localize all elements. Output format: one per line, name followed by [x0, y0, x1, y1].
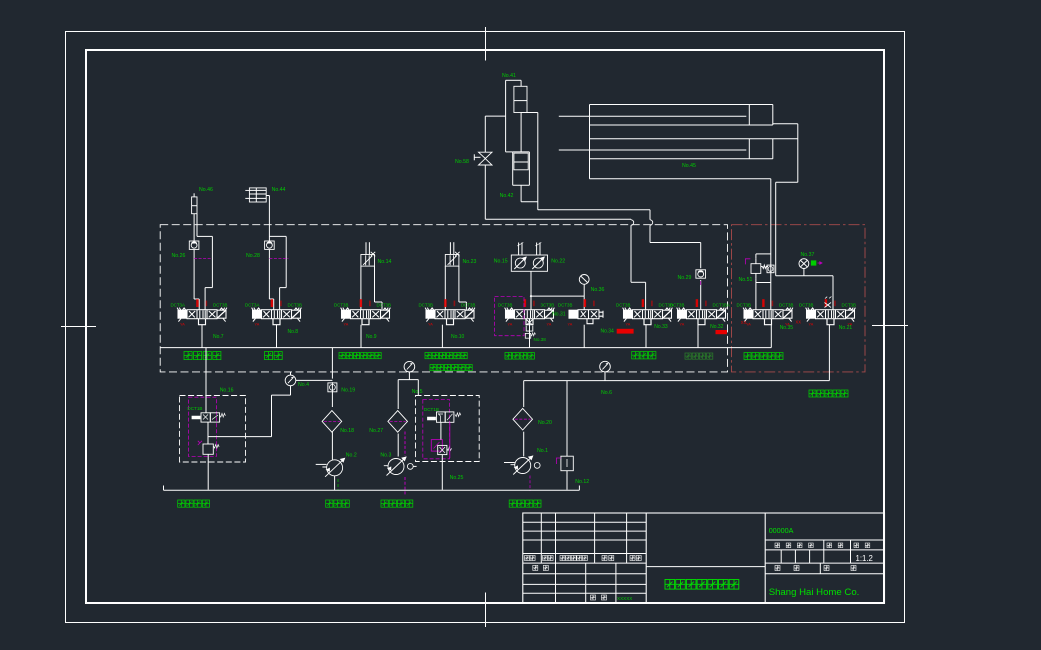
main-cylinder fast-feed red dash-dot box: [732, 225, 866, 372]
svg-text:No.25: No.25: [450, 475, 464, 481]
revision table rows: [523, 522, 646, 593]
inner border frame: [86, 50, 884, 603]
svg-text:YA: YA: [848, 323, 853, 327]
svg-text:No.31: No.31: [552, 312, 566, 318]
revision header labels (white CJK): [525, 556, 536, 561]
right header labels (white CJK): [775, 543, 813, 548]
svg-text:YA: YA: [785, 323, 790, 327]
svg-text:XX: XX: [796, 320, 802, 325]
svg-text:DCT1B: DCT1B: [187, 406, 202, 411]
svg-text:No.45: No.45: [682, 163, 696, 169]
unloader magenta drain line: [449, 422, 451, 458]
title block outline: [523, 513, 885, 603]
flow control valve No.23: [445, 252, 459, 266]
pressure gauge No.5: [404, 361, 415, 372]
svg-text:No.3: No.3: [380, 453, 391, 459]
svg-text:YA: YA: [508, 323, 513, 327]
magenta drain below stabilizer pump: [404, 432, 406, 496]
valve V5 solenoid tag red: [524, 299, 526, 307]
svg-text:No.29: No.29: [678, 275, 692, 281]
pilot relief valve: [198, 441, 219, 455]
horizontal actuator No.44: [245, 188, 266, 202]
wires pilot box: [206, 348, 291, 490]
shutoff valve No.58: [474, 152, 492, 165]
pressure gauge No.37: [799, 259, 809, 276]
svg-text:No.33: No.33: [654, 324, 668, 330]
unloader throttle check: [438, 445, 452, 454]
svg-text:No.23: No.23: [463, 259, 477, 265]
svg-text:No.28: No.28: [246, 253, 260, 259]
flow control valve No.14: [361, 252, 375, 266]
directional valve V1 No.7: [177, 308, 227, 325]
directional valve V4 No.10: [425, 308, 475, 325]
svg-text:DCT3B: DCT3B: [419, 303, 433, 308]
wire actuator No.44 to valve V2: [266, 196, 286, 310]
svg-text:No.16: No.16: [220, 388, 234, 394]
label below red box main-cyl fast (5 chars): [809, 390, 848, 397]
outer border frame: [66, 32, 905, 623]
magenta bracket relief pilot: [745, 259, 750, 265]
magenta tap line No.26: [194, 258, 211, 260]
station label 6 (3 chars): [632, 352, 656, 359]
gauge isolator green block: [811, 260, 816, 265]
revision table columns lower: [556, 563, 616, 603]
svg-text:YA: YA: [746, 323, 751, 327]
directional valve V5 No.31: [505, 308, 555, 325]
wires No.23 to valve: [445, 266, 466, 310]
valve V2 solenoid tag red: [271, 299, 273, 307]
stabilizer pump No.3: [384, 457, 406, 476]
directional valve V7 No.33: [623, 308, 673, 325]
svg-text:No.5: No.5: [412, 389, 423, 395]
relief valve No.13: [561, 456, 573, 471]
intensifier cylinder No.41 upper barrel: [506, 80, 521, 152]
centering tick right: [872, 325, 908, 327]
svg-text:DCT3B: DCT3B: [799, 303, 813, 308]
suction filter No.20: [513, 408, 533, 430]
directional valve V3 No.9: [341, 308, 391, 325]
svg-text:DCT3B: DCT3B: [461, 303, 475, 308]
V10 return wire down to pump header: [828, 325, 830, 381]
magenta drain pipe pump: [529, 476, 531, 492]
tank return header line: [160, 347, 771, 349]
svg-text:No.14: No.14: [378, 259, 392, 265]
station label 4 line2 (6 chars): [430, 365, 472, 371]
return wires from valves to tank header: [202, 325, 771, 348]
svg-text:No.4: No.4: [298, 382, 309, 388]
V5 lower chain throttle + pilot valve: [525, 319, 535, 348]
main ram cylinder No.45 body: [590, 105, 798, 183]
unloader solenoid valve: [428, 412, 461, 422]
pump header line: [524, 372, 830, 490]
wire regulator block to V5 and V6: [530, 271, 584, 309]
svg-text:No.41: No.41: [502, 73, 516, 79]
bottom label main pump (3 chars): [326, 500, 350, 507]
wires No.14 to valve: [361, 266, 382, 310]
wires stabilizer pump column: [398, 372, 418, 457]
svg-text:No.19: No.19: [341, 388, 355, 394]
green centerline below main pump: [337, 479, 339, 490]
drawing title (7 CJK chars): [665, 580, 739, 590]
svg-text:No.34: No.34: [601, 329, 615, 335]
check valve No.29: [696, 270, 706, 278]
svg-text:No.44: No.44: [272, 187, 286, 193]
magenta arrow at gauge: [818, 262, 823, 264]
pressure gauge No.4: [285, 375, 296, 386]
svg-text:No.36: No.36: [591, 287, 605, 293]
svg-text:No.38: No.38: [534, 337, 547, 342]
svg-text:No.8: No.8: [288, 329, 299, 335]
wire gauge to main pump column: [296, 379, 332, 381]
svg-text:No.27: No.27: [369, 428, 383, 434]
svg-text:No.37: No.37: [801, 252, 815, 258]
svg-text:DCT3B: DCT3B: [213, 303, 227, 308]
machine-zone dashed enclosure box: [160, 225, 727, 372]
svg-text:No.18: No.18: [340, 428, 354, 434]
svg-text:No.12: No.12: [575, 479, 589, 485]
svg-text:YA: YA: [809, 323, 814, 327]
bottom label stabilizer pump (4 chars): [381, 500, 413, 507]
valve V9 solenoid tag red: [762, 299, 764, 307]
svg-text:DCT3BA: DCT3BA: [713, 303, 730, 308]
pilot control magenta box: [188, 397, 216, 456]
pressure gauge No.6: [600, 361, 611, 372]
svg-text:YA: YA: [547, 323, 552, 327]
svg-text:YA: YA: [680, 323, 685, 327]
wires unloader box: [418, 380, 442, 490]
directional valve V9 No.35: [743, 308, 793, 325]
wire: relief loop to valve V9 left port: [755, 283, 757, 310]
svg-text:XXXXX: XXXXX: [617, 596, 632, 601]
svg-text:No.26: No.26: [172, 253, 186, 259]
valve V10 solenoid tag red: [825, 299, 827, 307]
svg-text:No.9: No.9: [366, 334, 377, 340]
intensifier piston lower: [514, 153, 528, 170]
pilot solenoid valve: [192, 413, 225, 422]
svg-text:DCT3B: DCT3B: [334, 303, 348, 308]
svg-text:YA: YA: [180, 323, 185, 327]
station label 3 (6 chars): [339, 353, 381, 359]
svg-text:3CT3B: 3CT3B: [541, 303, 555, 308]
magenta tap line No.28: [269, 258, 288, 260]
svg-text:DCT3B: DCT3B: [670, 303, 684, 308]
directional valve V8 No.32: [677, 308, 727, 325]
pilot control unit dashed box: [180, 396, 246, 463]
svg-text:YA: YA: [428, 323, 433, 327]
wire actuator No.46 to valve V1: [194, 214, 212, 310]
valve V3 solenoid tag red: [360, 299, 362, 307]
directional valve V2 No.8: [252, 308, 302, 325]
centering tick top: [485, 27, 487, 61]
bottom label pipe pump (4 chars): [509, 500, 541, 507]
station label 5 (4 chars): [505, 353, 534, 360]
designer row label (white CJK): [533, 565, 549, 570]
bottom label pilot-control (4 chars): [178, 500, 210, 507]
svg-text:DCT1B: DCT1B: [424, 407, 439, 412]
svg-text:00000A: 00000A: [769, 526, 794, 535]
pilot relief valve No.51: [751, 259, 768, 279]
svg-text:DCT3A: DCT3A: [245, 303, 259, 308]
intensifier piston upper: [514, 86, 527, 152]
title block main dividers: [646, 513, 765, 603]
relief valve loop wires in red box: [756, 254, 771, 283]
svg-text:DCT3B: DCT3B: [288, 303, 302, 308]
pilot X mark above V10: [825, 297, 832, 308]
directional valve V10 No.21: [806, 308, 856, 325]
svg-text:No.15: No.15: [494, 259, 508, 265]
svg-text:No.51: No.51: [739, 277, 753, 283]
wire: shutoff line to valve V7: [485, 116, 645, 310]
middle separator: [646, 566, 765, 568]
unloader pilot magenta valve: [431, 440, 442, 452]
valve V1 solenoid tag red: [196, 299, 198, 307]
svg-text:No.20: No.20: [538, 420, 552, 426]
pipe pump No.1: [511, 456, 533, 475]
unloader solenoid dashed box: [416, 396, 480, 462]
wire: main ram rear line down to valve V9: [770, 179, 772, 310]
red bar marker 1: [617, 329, 634, 334]
svg-text:No.6: No.6: [601, 390, 612, 396]
svg-text:YA: YA: [626, 323, 631, 327]
svg-text:DCT3B: DCT3B: [616, 303, 630, 308]
svg-text:No.58: No.58: [455, 159, 469, 165]
wire: intensifier right line to valve V8: [521, 113, 701, 310]
svg-text:No.7: No.7: [213, 334, 224, 340]
centering tick left: [61, 326, 96, 328]
svg-text:No.2: No.2: [346, 453, 357, 459]
valve V7 solenoid tag red: [642, 299, 644, 307]
svg-text:No.1: No.1: [537, 448, 548, 454]
wire main pump column: [332, 348, 334, 491]
twin flow regulator block No.15/No.22: [511, 243, 547, 272]
sheet count labels (white CJK): [775, 566, 799, 571]
svg-text:XX: XX: [741, 320, 747, 325]
station label 7 (4 chars dark): [685, 353, 713, 359]
suction filter No.27: [388, 411, 408, 433]
svg-text:DCT3A: DCT3A: [171, 303, 185, 308]
main ram rod lower: [559, 149, 747, 151]
tank line: [164, 486, 580, 491]
svg-text:DCT3B: DCT3B: [737, 303, 751, 308]
check valve No.28: [265, 241, 275, 249]
unloader magenta box: [423, 400, 450, 459]
svg-text:DCT3B: DCT3B: [842, 303, 856, 308]
magenta dashed box around V5: [495, 297, 524, 336]
red bar marker 2: [716, 330, 727, 334]
pump No.3 drain circle: [407, 464, 413, 470]
svg-text:No.46: No.46: [199, 187, 213, 193]
station label 2 (2 chars): [265, 352, 283, 360]
centering tick bottom: [485, 593, 487, 628]
check valve in red box: [767, 265, 774, 273]
svg-text:DCT3B: DCT3B: [779, 303, 793, 308]
station label 8 main-cyl fast (5 chars): [744, 353, 783, 360]
intensifier lower barrel: [513, 152, 530, 185]
valve V8 solenoid tag red: [696, 299, 698, 307]
right panel columns: [781, 540, 850, 574]
main ram piston upper: [749, 105, 773, 126]
svg-text:YA: YA: [344, 323, 349, 327]
svg-text:DCT3B: DCT3B: [377, 303, 391, 308]
station label 4 line1 (6 chars): [425, 353, 467, 359]
station label 1 (4 chars): [184, 352, 221, 360]
svg-text:1:1.2: 1:1.2: [856, 554, 873, 563]
main ram piston lower: [749, 139, 773, 159]
svg-text:No.32: No.32: [710, 324, 724, 330]
clamp actuator No.46: [192, 193, 197, 213]
svg-text:No.10: No.10: [451, 334, 465, 340]
check valve No.19: [328, 383, 337, 392]
svg-text:DCT3B: DCT3B: [498, 303, 512, 308]
revision table columns upper: [541, 513, 626, 563]
svg-text:DCT3B: DCT3B: [558, 303, 572, 308]
valve V6 solenoid tag red: [584, 299, 586, 307]
wire pump3 to solenoid box: [413, 465, 416, 467]
svg-text:YA: YA: [568, 323, 573, 327]
svg-text:YA: YA: [255, 323, 260, 327]
directional valve V6 No.34: [569, 310, 603, 324]
check valve No.26: [189, 241, 199, 249]
svg-text:No.42: No.42: [500, 193, 514, 199]
suction filter No.18: [322, 411, 342, 433]
valve V4 solenoid tag red: [444, 299, 446, 307]
date label (white CJK): [591, 595, 607, 600]
main pump drive stub: [316, 463, 327, 465]
wire: main ram front line to valve V10: [776, 182, 833, 309]
pressure gauge No.36: [579, 275, 589, 297]
main pump No.2: [322, 458, 344, 477]
right panel rows: [765, 540, 884, 574]
main ram rod upper: [559, 115, 747, 117]
svg-text:Shang Hai Home Co.: Shang Hai Home Co.: [769, 587, 860, 598]
svg-text:No.22: No.22: [551, 259, 565, 265]
